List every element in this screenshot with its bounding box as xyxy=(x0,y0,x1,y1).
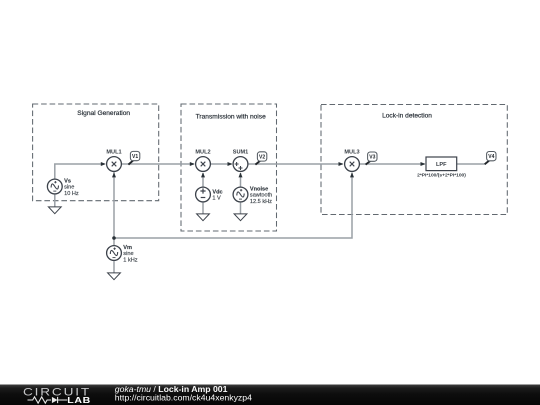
svg-text:V3: V3 xyxy=(369,155,375,161)
svg-text:MUL3: MUL3 xyxy=(344,150,359,156)
svg-text:Lock-in detection: Lock-in detection xyxy=(382,113,432,120)
svg-text:1 V: 1 V xyxy=(212,196,221,202)
svg-text:sine: sine xyxy=(64,185,74,191)
svg-text:Vs: Vs xyxy=(64,178,71,184)
svg-text:V2: V2 xyxy=(259,155,265,161)
svg-text:SUM1: SUM1 xyxy=(233,150,249,156)
svg-text:Vdc: Vdc xyxy=(212,189,222,195)
svg-text:V1: V1 xyxy=(132,154,138,160)
svg-text:Vm: Vm xyxy=(123,245,132,251)
svg-text:MUL2: MUL2 xyxy=(195,150,210,156)
svg-text:2*PI*100/(s+2*PI*100): 2*PI*100/(s+2*PI*100) xyxy=(417,172,466,178)
svg-text:LAB: LAB xyxy=(67,395,91,405)
svg-text:Signal Generation: Signal Generation xyxy=(77,110,130,117)
svg-text:MUL1: MUL1 xyxy=(106,150,121,156)
svg-text:LPF: LPF xyxy=(436,162,447,168)
svg-text:10 Hz: 10 Hz xyxy=(64,191,79,197)
svg-text:Vnoise: Vnoise xyxy=(250,186,268,192)
svg-text:sine: sine xyxy=(123,251,133,257)
svg-text:http://circuitlab.com/ck4u4xen: http://circuitlab.com/ck4u4xenkyzp4 xyxy=(115,393,252,403)
svg-text:Transmission with noise: Transmission with noise xyxy=(196,113,266,120)
svg-text:sawtooth: sawtooth xyxy=(250,193,272,199)
svg-text:V4: V4 xyxy=(488,154,494,160)
svg-text:1 kHz: 1 kHz xyxy=(123,257,138,263)
svg-text:12.5 kHz: 12.5 kHz xyxy=(250,199,272,205)
